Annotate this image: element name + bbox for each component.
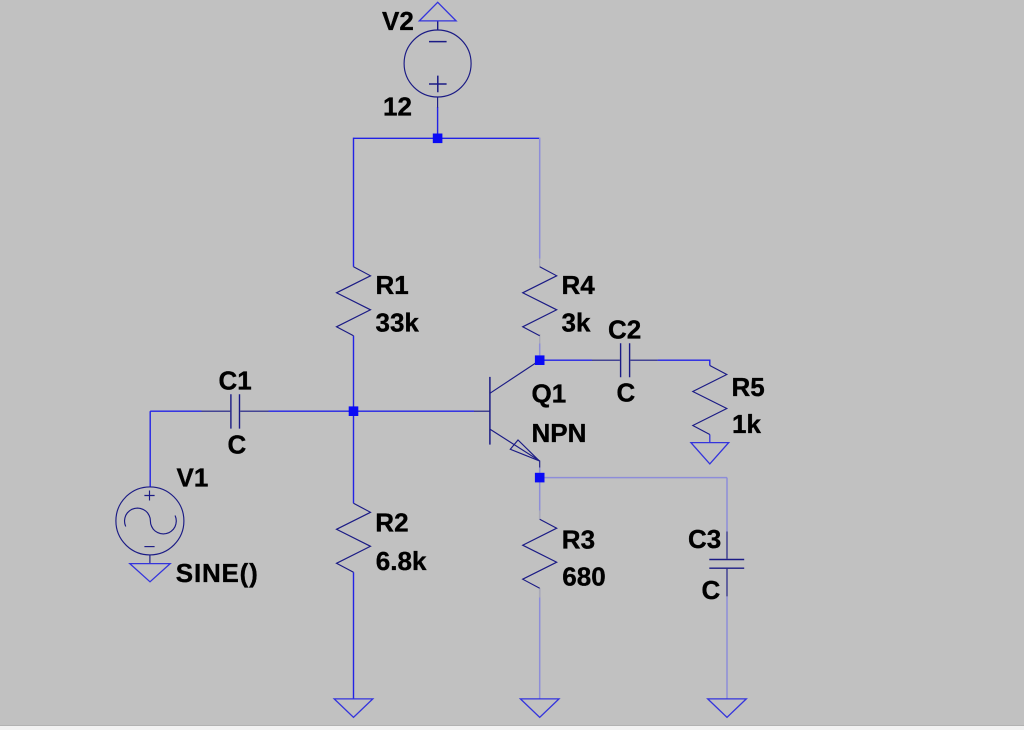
svg-text:C: C [702, 575, 721, 605]
svg-text:C3: C3 [688, 524, 721, 554]
svg-text:C: C [228, 430, 247, 460]
svg-text:6.8k: 6.8k [376, 546, 427, 576]
svg-text:R4: R4 [562, 270, 596, 300]
svg-text:12: 12 [383, 92, 412, 122]
svg-text:680: 680 [562, 562, 605, 592]
svg-text:C: C [617, 378, 636, 408]
svg-text:R3: R3 [562, 525, 595, 555]
svg-text:33k: 33k [376, 308, 420, 338]
svg-text:R5: R5 [732, 372, 765, 402]
svg-text:R1: R1 [376, 270, 409, 300]
svg-text:NPN: NPN [532, 418, 587, 448]
svg-text:V1: V1 [177, 463, 209, 493]
svg-text:3k: 3k [562, 308, 591, 338]
svg-text:C1: C1 [219, 365, 252, 395]
svg-text:1k: 1k [732, 409, 761, 439]
svg-text:Q1: Q1 [532, 378, 567, 408]
svg-text:C2: C2 [608, 315, 641, 345]
svg-text:SINE(): SINE() [176, 558, 259, 588]
svg-text:R2: R2 [375, 508, 408, 538]
svg-text:V2: V2 [382, 6, 414, 36]
